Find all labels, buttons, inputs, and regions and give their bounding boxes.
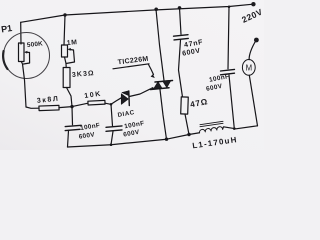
wire 3K3 to node N1 xyxy=(67,88,73,107)
wire C2 top lead xyxy=(111,104,113,126)
wire diac to triac gate xyxy=(129,89,151,97)
wire 47nF top lead xyxy=(180,8,182,34)
wire R2 bottom lead xyxy=(65,57,67,68)
wire motor top lead xyxy=(249,40,256,60)
node N1 xyxy=(70,105,73,108)
potentiometer P1 housing circle xyxy=(4,33,50,79)
wire triac bottom lead xyxy=(160,90,167,140)
svg-text:1M: 1M xyxy=(67,39,78,47)
wire 10K to diac, node N2 xyxy=(105,98,121,105)
wire R2 wiper step xyxy=(66,50,75,64)
resistor R3 3K3 body xyxy=(63,68,70,88)
wire C3 top lead xyxy=(71,107,74,125)
motor M1 xyxy=(242,60,255,76)
capacitor C4 100nF xyxy=(221,69,235,74)
potentiometer P1 dark left arc xyxy=(3,51,7,69)
potentiometer P1 body xyxy=(19,43,25,62)
capacitor C3 100nF xyxy=(65,125,81,130)
node J0 xyxy=(63,13,66,16)
resistor R5 47R body xyxy=(181,97,189,114)
wire P1 top lead xyxy=(20,22,22,44)
svg-text:P1: P1 xyxy=(0,23,12,34)
resistor R4 10K (horizontal) xyxy=(88,100,105,105)
node C4-bottom xyxy=(233,127,236,130)
diac D1 xyxy=(121,91,129,106)
capacitor C2 100nF xyxy=(106,126,122,131)
potentiometer R2 1M body xyxy=(62,45,68,57)
node J1 xyxy=(154,8,158,12)
wire 47R bottom lead xyxy=(185,114,189,135)
potentiometer P1 wiper arrow xyxy=(26,51,30,53)
wire motor bottom lead xyxy=(249,75,257,126)
wire C3 bottom lead xyxy=(68,131,69,148)
node A xyxy=(165,138,168,141)
label arrow TIC226M xyxy=(149,65,154,75)
wire bottom rail xyxy=(68,133,200,147)
potentiometer R2 wiper arrow xyxy=(69,48,74,51)
wire top rail xyxy=(21,4,253,22)
terminal T2 xyxy=(254,38,259,43)
terminal T1 xyxy=(251,2,255,6)
svg-text:M: M xyxy=(246,64,253,73)
gate junction blob xyxy=(151,87,154,90)
wire triac top lead xyxy=(156,9,164,80)
wire 1M top lead xyxy=(64,15,65,45)
wire P1 bottom lead down xyxy=(21,62,26,108)
wire 3k8 to node N1 xyxy=(59,107,72,108)
wire C2 bottom lead xyxy=(111,131,113,144)
node J2 xyxy=(178,6,182,10)
capacitor C1 47nF xyxy=(174,35,189,40)
triac TR1 xyxy=(151,80,173,89)
resistor 3K8 (horizontal) xyxy=(39,105,59,110)
node N2 xyxy=(110,103,113,106)
wire C4 top lead xyxy=(228,7,229,69)
wire to 3k8 resistor xyxy=(26,107,39,108)
wire inductor to right corner xyxy=(223,126,258,129)
wire 47nF to 47R xyxy=(179,40,183,97)
wire P1 wiper to bottom lead xyxy=(24,53,30,65)
wire C4 bottom lead xyxy=(229,75,234,129)
node J3 xyxy=(228,6,231,9)
label underline TIC226M xyxy=(113,64,149,69)
wire N1 to 10K xyxy=(72,103,88,106)
inductor L1 coil xyxy=(199,127,222,133)
node B xyxy=(187,133,190,136)
node C2-bottom xyxy=(110,143,113,146)
inductor L1 core bars xyxy=(200,123,223,126)
